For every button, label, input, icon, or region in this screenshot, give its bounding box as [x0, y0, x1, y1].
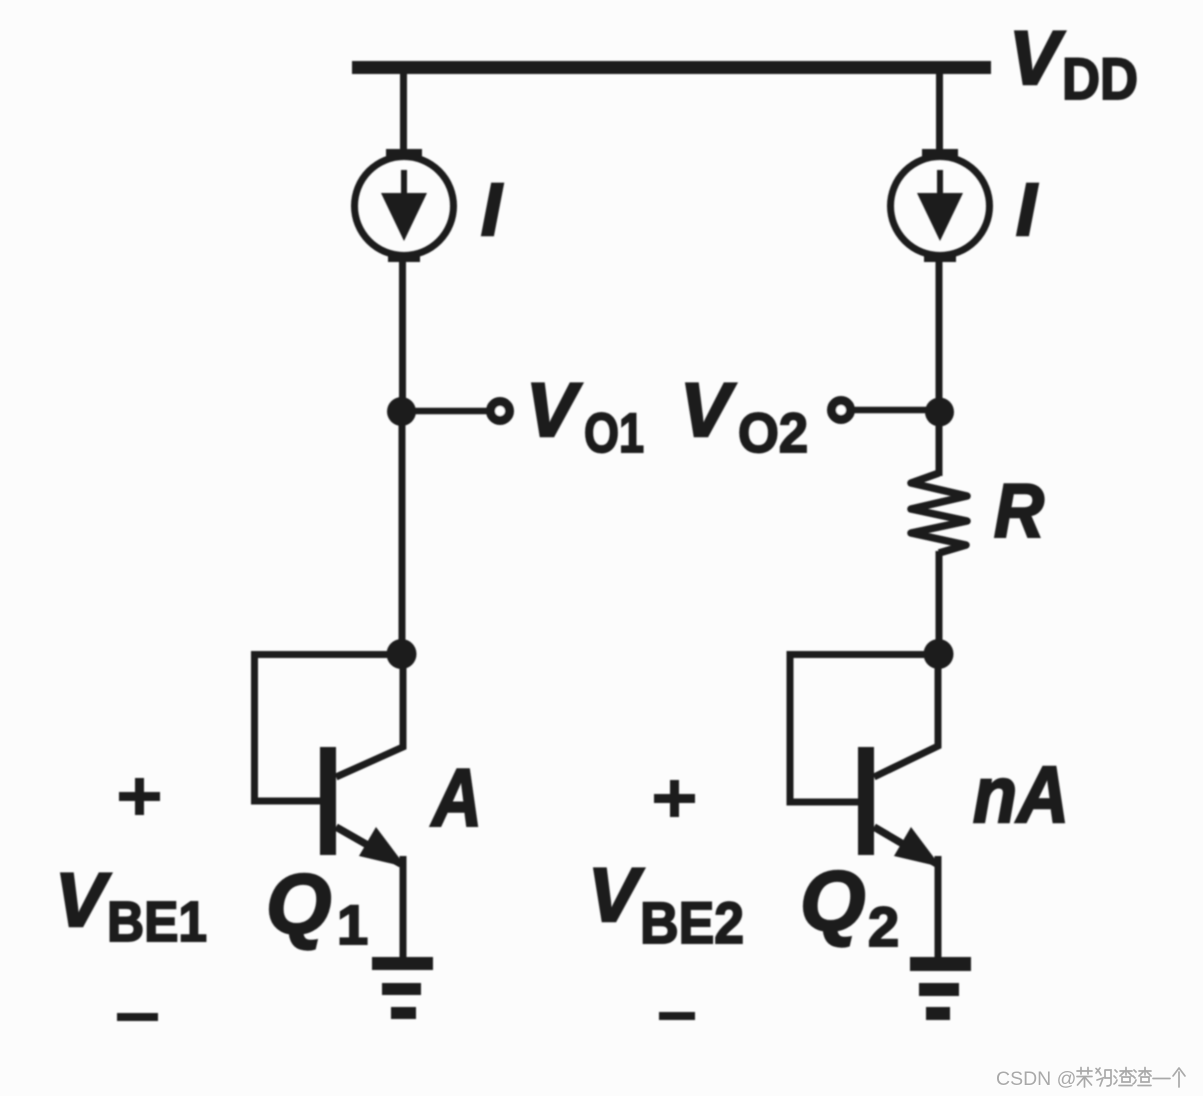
- svg-text:O1: O1: [584, 401, 644, 464]
- svg-text:O2: O2: [738, 401, 808, 464]
- svg-text:R: R: [994, 469, 1044, 554]
- svg-text:I: I: [1016, 168, 1038, 251]
- svg-text:BE2: BE2: [640, 891, 744, 956]
- svg-text:2: 2: [868, 895, 899, 958]
- svg-text:A: A: [430, 753, 482, 844]
- svg-text:V: V: [680, 368, 736, 453]
- svg-text:nA: nA: [973, 750, 1069, 839]
- svg-text:1: 1: [337, 893, 368, 956]
- svg-text:V: V: [55, 858, 111, 943]
- svg-text:Q: Q: [800, 854, 865, 948]
- svg-text:Q: Q: [266, 857, 331, 951]
- svg-text:V: V: [526, 368, 582, 453]
- svg-text:CSDN @: CSDN @: [996, 1068, 1076, 1090]
- svg-text:V: V: [1009, 16, 1065, 101]
- svg-text:BE1: BE1: [107, 890, 207, 954]
- svg-text:DD: DD: [1062, 47, 1138, 112]
- svg-text:V: V: [588, 853, 644, 938]
- svg-text:I: I: [481, 168, 503, 251]
